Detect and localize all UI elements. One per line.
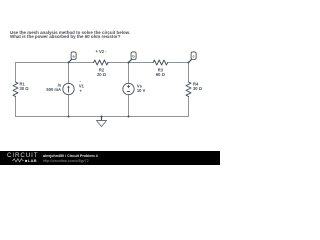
wire bottom bbox=[16, 116, 189, 118]
wire top middle segment bbox=[108, 62, 154, 64]
svg-text:30 Ω: 30 Ω bbox=[193, 86, 203, 91]
current source Is arrow bbox=[68, 87, 70, 92]
resistor R2 bbox=[94, 60, 109, 65]
junction b dot bbox=[128, 62, 130, 64]
voltage source Vs plus bbox=[127, 85, 130, 88]
wire voltage source bottom bbox=[128, 95, 130, 117]
wire voltage source top bbox=[128, 63, 130, 84]
node a flag bbox=[69, 59, 72, 62]
wire top left segment bbox=[16, 62, 94, 64]
voltage source Vs circle bbox=[123, 83, 134, 94]
junction bottom vs dot bbox=[128, 116, 130, 118]
junction bottom is dot bbox=[68, 116, 70, 118]
footer bar bbox=[0, 151, 220, 165]
node b flag bbox=[129, 59, 132, 62]
svg-text:30 Ω: 30 Ω bbox=[20, 86, 30, 91]
node c flag bbox=[189, 59, 192, 62]
svg-text:60 Ω: 60 Ω bbox=[156, 72, 166, 77]
wire current source top bbox=[68, 63, 70, 84]
resistor R4 bbox=[186, 82, 191, 97]
current source Is circle bbox=[63, 83, 74, 94]
resistor R3 bbox=[153, 60, 167, 65]
voltage source Vs minus bbox=[127, 90, 130, 92]
wire right vertical top bbox=[188, 63, 190, 83]
ground bbox=[101, 117, 103, 121]
junction ground dot bbox=[101, 116, 103, 118]
question text bbox=[10, 31, 130, 41]
svg-text:+: + bbox=[80, 89, 83, 94]
junction a dot bbox=[68, 62, 70, 64]
wire current source bottom bbox=[68, 95, 70, 117]
wire top right segment bbox=[168, 62, 189, 64]
svg-text:20 Ω: 20 Ω bbox=[97, 72, 107, 77]
junction c dot bbox=[188, 62, 190, 64]
svg-text:10 V: 10 V bbox=[137, 88, 146, 93]
wire left vertical bottom bbox=[15, 97, 17, 117]
svg-text:500 mA: 500 mA bbox=[46, 87, 61, 92]
svg-text:c: c bbox=[193, 54, 195, 58]
svg-text:V1: V1 bbox=[79, 83, 85, 88]
resistor R1 bbox=[13, 82, 18, 97]
wire left vertical top bbox=[15, 63, 17, 83]
wire right vertical bottom bbox=[188, 97, 190, 117]
svg-text:+ V2 -: + V2 - bbox=[95, 49, 107, 54]
